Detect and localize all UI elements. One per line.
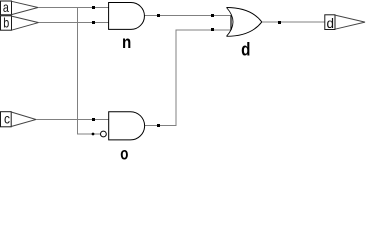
wire b from pin to AND n input [39, 22, 109, 24]
svg-text:c: c [4, 111, 10, 127]
AND gate n [109, 3, 145, 30]
AND gate o [109, 112, 145, 140]
OR gate d [227, 8, 262, 37]
junction dot at OR d upper input [211, 14, 214, 17]
junction dot on wire c at o upper input [92, 118, 95, 121]
svg-text:n: n [122, 32, 131, 52]
junction dot on wire b at n input [92, 21, 95, 24]
wire from OR d output to output pin d [262, 21, 325, 23]
junction dot at OR d lower input [211, 28, 214, 31]
svg-text:d: d [326, 15, 334, 31]
input pin a [1, 0, 39, 15]
input pin c [1, 111, 37, 127]
wire a from pin to AND n input [38, 7, 109, 9]
wire from gate o output up to OR d lower input [145, 30, 231, 126]
svg-text:d: d [241, 40, 250, 60]
junction dot at o lower input [92, 133, 95, 136]
wire from AND n output to OR d upper input [144, 15, 231, 17]
output pin d [325, 15, 365, 31]
inverter bubble at gate o lower input [101, 131, 107, 137]
svg-text:o: o [120, 143, 128, 161]
junction dot on wire a at n input [92, 6, 95, 9]
input pin b [1, 14, 39, 30]
wire branch from a down to gate o lower input [78, 8, 101, 135]
svg-text:a: a [3, 0, 9, 15]
junction dot at OR d output [278, 21, 281, 24]
svg-text:b: b [3, 14, 9, 30]
wire c from pin to gate o upper input [36, 119, 109, 121]
junction dot at n output [157, 14, 160, 17]
junction dot at o output [157, 124, 160, 127]
